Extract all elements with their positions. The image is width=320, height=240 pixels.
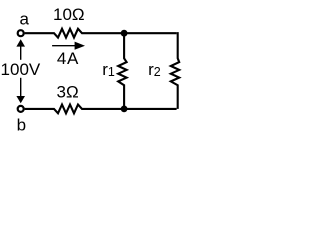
terminal a: open circle [18,30,24,36]
junction dot: top node joining r1 to top wire [121,30,128,37]
svg-text:b: b [17,115,26,134]
voltage arrow: lower tail line [20,78,22,98]
svg-text:a: a [19,9,29,28]
svg-text:100V: 100V [1,60,41,79]
current arrow: 4A arrow line pointing right under 10 ohm resistor [52,45,76,47]
voltage arrow: upper tail line [20,46,22,60]
wire: bottom wire with resistor R=3 zigzag from node b to bottom-right corner [25,105,177,114]
current arrow: 4A arrowhead [75,42,85,50]
svg-text:4A: 4A [57,49,79,68]
voltage arrow: lower arrowhead pointing down at terminal b [16,96,25,103]
svg-text:r1: r1 [102,60,115,79]
svg-text:r2: r2 [148,60,161,79]
junction dot: bottom node joining r1 to bottom wire [121,106,128,113]
svg-text:3Ω: 3Ω [57,82,79,101]
terminal b: open circle [18,106,24,112]
voltage arrow: upper arrowhead pointing up at terminal a [16,39,25,46]
svg-text:10Ω: 10Ω [53,5,85,24]
wire: right vertical branch with resistor r2 zigzag [171,32,179,109]
wire: middle vertical branch with resistor r1 zigzag [118,33,126,109]
wire: top wire with resistor R=10 zigzag from node a to top-right corner [25,29,177,38]
